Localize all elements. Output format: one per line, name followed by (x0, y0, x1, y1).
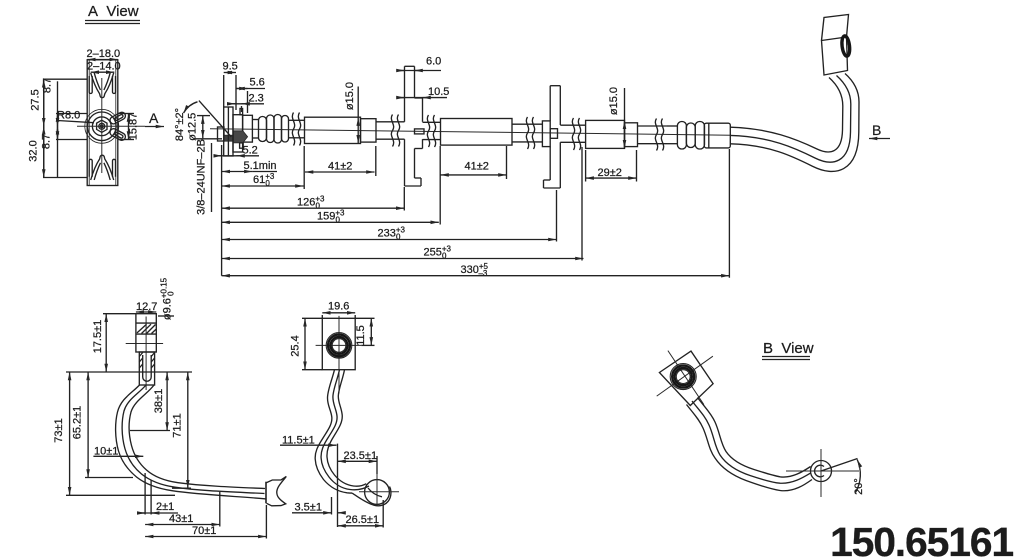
sleeve 2 (41mm) (441, 119, 513, 146)
dim 43+-1 (145, 492, 220, 527)
svg-text:41±2: 41±2 (328, 161, 352, 173)
bv tube upper edge (698, 398, 811, 478)
bv tube middle line (692, 401, 811, 483)
dim 84deg +-2 with leader (174, 101, 232, 142)
dim 5.6 (237, 77, 266, 114)
svg-text:ø12.5: ø12.5 (187, 113, 199, 141)
svg-text:12.7: 12.7 (136, 301, 157, 313)
dim 2-18.0 (87, 48, 121, 60)
dim 41+-2 sleeve1 (304, 146, 376, 189)
svg-text:R8.0: R8.0 (57, 110, 80, 122)
svg-text:26.5±1: 26.5±1 (346, 514, 380, 526)
dim 27.5 / 32.0 left dimension line (28, 79, 44, 177)
svg-text:65.2±1: 65.2±1 (72, 406, 84, 440)
A-view bracket body (87, 60, 118, 186)
dim 8.7 / 8.7 second dimension line (41, 78, 58, 178)
dim 11.5 block (355, 318, 375, 345)
bm tube right edge (327, 370, 366, 487)
thread label 3/8-24UNF-2B (196, 139, 212, 215)
bv ring circles (670, 364, 696, 390)
bl hose inner edge (129, 385, 265, 489)
chain dim 255 (222, 147, 584, 261)
svg-text:19.6: 19.6 (328, 301, 349, 313)
svg-text:38±1: 38±1 (153, 389, 165, 413)
svg-text:5.6: 5.6 (250, 77, 265, 89)
svg-text:2–18.0: 2–18.0 (87, 48, 121, 60)
left fitting nipple stub (218, 127, 225, 141)
svg-text:2.3: 2.3 (249, 93, 264, 105)
dim 26.5+-1 (338, 500, 384, 528)
svg-text:2±1: 2±1 (156, 501, 174, 513)
svg-text:3.5±1: 3.5±1 (295, 502, 322, 514)
svg-text:10.5: 10.5 (428, 86, 449, 98)
svg-text:71±1: 71±1 (172, 413, 184, 437)
A-view extension lines (43, 79, 134, 177)
top extension line of free length (66, 371, 192, 373)
bm centerlines (338, 316, 340, 394)
bl fitting centerline (145, 317, 147, 391)
A-view center boss circles (85, 109, 119, 143)
dim 3.5+-1 (292, 497, 344, 515)
svg-text:29±2: 29±2 (598, 167, 622, 179)
dim 17.5+-1 (92, 314, 136, 372)
svg-text:B: B (872, 122, 881, 138)
A View label (85, 3, 140, 24)
dim 2.3 (228, 93, 264, 113)
chain dim 330 (222, 149, 730, 278)
top V notch (91, 73, 114, 98)
dim 29+-2 sleeve3 (586, 150, 637, 182)
dim 25.4 (289, 318, 322, 369)
dim dia 15.0 sleeve3 (608, 87, 625, 148)
bv loop eye (811, 461, 832, 482)
dim R8.0 (57, 110, 94, 123)
bm loop centerlines (359, 491, 399, 493)
dim 10.5 bracket1 tab (398, 86, 449, 98)
svg-text:27.5: 27.5 (30, 89, 42, 110)
dim dia 12.5 (187, 113, 223, 141)
left fitting flange (224, 107, 233, 156)
bl hose outer edge (116, 385, 266, 499)
left fitting thread hatch (224, 135, 233, 141)
dim 15.87 (128, 113, 140, 141)
dim 2-14.0 (87, 61, 121, 73)
dim 19.6 (322, 301, 355, 319)
bv block diagonal centerlines (657, 356, 713, 396)
svg-text:150.65161: 150.65161 (830, 519, 1013, 559)
A-view centerlines (77, 125, 145, 127)
hose segment + break between bracket2 and sleeve3 (560, 118, 585, 150)
left fitting seal (dark) (234, 131, 248, 143)
dim 41+-2 sleeve2 (441, 146, 507, 179)
svg-text:5.2: 5.2 (243, 145, 258, 157)
chain dim 233 (222, 190, 557, 242)
dim 38+-1 (130, 372, 170, 431)
svg-text:5.1min: 5.1min (244, 160, 277, 172)
dim 12.7 (136, 301, 158, 313)
svg-text:2–14.0: 2–14.0 (87, 61, 121, 73)
bl hose middle line (122, 385, 264, 494)
left fitting bottom tab (240, 143, 244, 148)
dim 2+-1 (138, 473, 178, 515)
svg-text:23.5±1: 23.5±1 (344, 450, 378, 462)
svg-text:70±1: 70±1 (192, 525, 216, 537)
svg-text:8.7: 8.7 (41, 134, 53, 149)
bottom V notch (91, 155, 114, 180)
dim 6.0 bracket1 (398, 56, 441, 71)
upper bracket block (822, 15, 849, 76)
dim 73+-1 (53, 372, 175, 495)
dim 23.5+-1 (338, 450, 378, 474)
svg-text:41±2: 41±2 (465, 161, 489, 173)
upper bracket hole (dark) (841, 35, 851, 56)
dim 5.1min (222, 160, 277, 172)
dim 71+-1 (172, 372, 191, 488)
hose segment + break between sleeve1 and clamp bracket 1 (376, 115, 405, 147)
dim 70+-1 (145, 505, 266, 539)
svg-text:B View: B View (763, 340, 814, 357)
dim 11.5+-1 (280, 435, 337, 447)
chain dim 61 (222, 172, 304, 188)
svg-text:43±1: 43±1 (169, 513, 193, 525)
svg-text:32.0: 32.0 (28, 140, 40, 161)
svg-text:9.5: 9.5 (223, 61, 238, 73)
svg-text:A View: A View (88, 3, 139, 20)
bl fitting block (136, 314, 156, 352)
chain dim 159 (222, 146, 441, 225)
dim dia 15.0 sleeve1 (344, 82, 358, 143)
bm ring circles (326, 333, 352, 359)
clamp bracket 1 (405, 66, 425, 186)
bv loop centerlines (786, 470, 859, 472)
dim 65.2+-1 (72, 372, 133, 478)
sleeve 3 (29mm) (586, 120, 638, 148)
dim 9.5 (223, 61, 238, 111)
svg-text:ø15.0: ø15.0 (344, 82, 356, 110)
bm long extension line (337, 444, 339, 527)
svg-text:15.87: 15.87 (128, 113, 140, 141)
hose segment + break between sleeve2 and clamp bracket 2 (512, 117, 542, 149)
B View label (762, 340, 814, 360)
bv tube lower edge (687, 405, 813, 491)
dim dia 9.6 +0.15/0 (158, 277, 176, 320)
svg-text:ø15.0: ø15.0 (608, 87, 620, 115)
bv banjo block (tilted) (659, 351, 713, 405)
svg-text:11.5: 11.5 (355, 325, 367, 346)
bl hose broken end (266, 477, 286, 506)
left fitting crimp collar (243, 115, 253, 142)
svg-text:3/8–24UNF–2B: 3/8–24UNF–2B (196, 139, 208, 215)
svg-text:8.7: 8.7 (42, 78, 54, 93)
chain dim 126 (222, 187, 405, 211)
hose segment + break after sleeve3 (638, 119, 668, 151)
hose segment + break between bracket1 and sleeve2 (423, 115, 441, 147)
hose bellows right (667, 122, 705, 150)
A-view right tabs (109, 111, 127, 142)
bm block (322, 318, 355, 369)
section arrow A (145, 110, 164, 127)
svg-text:20°: 20° (853, 478, 865, 495)
bl crimp collar (139, 352, 154, 385)
dim 20 deg (821, 459, 865, 495)
hose bellows left (252, 115, 288, 144)
bm tube left edge (315, 370, 352, 493)
end fitting (right) (704, 123, 730, 148)
bm tube middle line (321, 370, 369, 490)
sleeve 1 (41mm) (305, 117, 377, 143)
hose centerline (210, 129, 731, 136)
view arrow B (869, 122, 890, 139)
svg-text:A: A (149, 110, 159, 126)
hose segment + break symbol left (289, 113, 305, 146)
dim 10+-1 (93, 446, 143, 458)
bm loop (352, 480, 391, 506)
svg-text:17.5±1: 17.5±1 (92, 320, 104, 354)
svg-text:6.0: 6.0 (426, 56, 441, 68)
left extension line for chain dims (221, 145, 223, 276)
svg-text:73±1: 73±1 (53, 418, 65, 442)
svg-text:25.4: 25.4 (289, 335, 301, 356)
steel pipe to upper bracket (730, 74, 859, 172)
dim 5.2 (214, 145, 259, 157)
left fitting hex body (233, 109, 243, 153)
clamp bracket 2 (542, 86, 560, 188)
